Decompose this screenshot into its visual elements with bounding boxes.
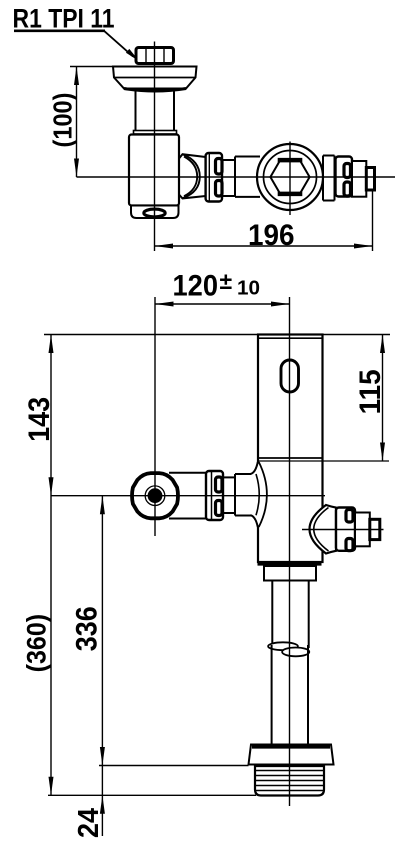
inlet nut slot lower <box>216 501 223 516</box>
svg-text:336: 336 <box>71 606 104 651</box>
dim 196 line <box>155 245 373 247</box>
nut2 slot lower <box>344 182 351 196</box>
nut1 collar line <box>208 154 210 202</box>
extension line thread bottom level <box>48 794 256 796</box>
hexagon thick top bar <box>278 158 303 163</box>
body vertical centerline <box>289 297 291 806</box>
hex nut facet lines <box>145 49 147 63</box>
right fitting cap <box>355 513 370 547</box>
inlet bell flare top <box>251 462 258 474</box>
union nut 1 (top view) <box>206 153 222 202</box>
inlet port center dot <box>148 488 163 503</box>
spreader flange plate <box>249 745 334 765</box>
bell crescent outer <box>183 155 200 199</box>
cap drain ellipse <box>144 209 165 217</box>
svg-text:(100): (100) <box>48 93 78 148</box>
pipe break symbol <box>268 642 298 650</box>
valve head hexagon <box>270 160 309 194</box>
body slot oval <box>281 360 299 392</box>
body top cap line <box>259 337 323 339</box>
svg-text:(360): (360) <box>22 614 52 673</box>
svg-text:24: 24 <box>73 808 105 838</box>
body section line <box>258 457 323 459</box>
inlet bell mouth outer arc <box>259 462 267 527</box>
inlet pipe (front view) <box>169 472 206 474</box>
valve head outer circle <box>257 144 323 210</box>
tailpipe lower <box>271 645 273 745</box>
extension line flange top level <box>99 765 249 767</box>
dim 120 arrow left <box>155 302 174 307</box>
thread lines <box>256 770 324 772</box>
threaded end <box>255 766 324 796</box>
spud washer <box>134 131 177 135</box>
dim 196 arrow left <box>155 244 174 249</box>
inlet extension / port vertical centerline <box>154 297 156 536</box>
port horizontal centerline <box>51 495 325 497</box>
bell crescent inner <box>184 157 197 197</box>
svg-text:115: 115 <box>354 369 387 414</box>
inlet bell white mask <box>256 463 267 526</box>
dim (100) arrow up <box>74 67 79 86</box>
spreader flange dark top <box>252 745 330 749</box>
inlet nut slot upper <box>216 477 223 492</box>
outlet bell (top view) <box>179 154 206 158</box>
right fitting slot upper <box>346 510 353 523</box>
cylinder before valve head <box>234 157 236 198</box>
hexagon thick bottom bar <box>278 192 303 197</box>
svg-text:196: 196 <box>248 219 295 252</box>
valve head vertical crosshair <box>289 142 291 216</box>
extension line body top right <box>323 334 391 336</box>
bottom nut under body <box>264 566 316 581</box>
spud flange bottom rim <box>124 89 186 92</box>
dim 196 arrow right <box>354 244 373 249</box>
dim 336/24 line <box>101 496 103 836</box>
outlet nub (top view) <box>366 168 374 191</box>
dim 120±10 line <box>155 303 290 305</box>
svg-text:120: 120 <box>173 270 219 303</box>
dim 143 arrow up <box>49 335 54 354</box>
leader line <box>104 31 133 57</box>
inlet port hex flange <box>132 473 178 518</box>
right fitting nut <box>336 508 355 551</box>
svg-text:143: 143 <box>23 397 56 442</box>
dim (360) arrow down <box>49 777 54 796</box>
union nut (front view inlet) <box>206 471 223 520</box>
valve body (front view) <box>258 335 323 563</box>
spud neck <box>135 90 137 131</box>
horizontal centerline (top view) <box>77 176 396 178</box>
spud flange mid line <box>114 77 196 79</box>
dim 115 arrow down <box>380 443 385 462</box>
dim 115 arrow up <box>380 335 385 354</box>
nut slot upper <box>216 159 223 175</box>
outlet section after head <box>323 155 335 157</box>
extension line body top left <box>44 334 258 336</box>
outlet cap (top view) <box>352 161 366 197</box>
svg-text:R1 TPI 11: R1 TPI 11 <box>13 4 115 34</box>
right fitting centerline <box>302 529 384 531</box>
dim 336 arrow down <box>100 747 105 766</box>
body bottom thick bar <box>258 561 322 565</box>
inlet bell mouth inner arc <box>256 474 259 515</box>
spud flange <box>113 67 197 89</box>
valve head inner circle <box>264 151 317 204</box>
inlet cylinder <box>234 474 236 516</box>
bottom cap (top view) <box>131 206 179 219</box>
inlet bell flare bottom <box>251 515 258 527</box>
dim 24 arrow up <box>100 795 105 814</box>
dim 336 arrow up <box>100 496 105 515</box>
inlet pipe segment 2 <box>223 476 235 478</box>
right fitting slot lower <box>346 539 353 551</box>
union nut 2 (top view right) <box>336 157 353 197</box>
hex nut (spud top) <box>136 48 174 64</box>
dim 143/(360) line <box>50 335 52 796</box>
leader arrowhead <box>126 49 140 62</box>
leader underline <box>14 29 105 32</box>
right fitting dome inner arc <box>314 508 329 552</box>
dim 115 line <box>382 335 384 462</box>
svg-text:±: ± <box>220 268 233 294</box>
dim (100) arrow down <box>74 159 79 178</box>
dim (100) line <box>76 67 78 178</box>
nut slot lower <box>216 181 223 197</box>
dim 196 right extension <box>372 190 374 251</box>
dim (100) extension line top <box>70 66 113 68</box>
nut2 slot upper <box>344 164 351 178</box>
inlet port boss ring <box>145 486 165 506</box>
body section extension (115 bottom) <box>258 460 389 462</box>
right fitting dome (front view) <box>310 505 337 554</box>
valve body (top view) <box>129 135 179 206</box>
spud vertical centerline <box>154 42 156 252</box>
svg-text:10: 10 <box>237 278 260 300</box>
right fitting nub <box>370 519 380 539</box>
tailpipe upper <box>271 581 273 649</box>
pipe segment 2 (top view) <box>222 159 235 161</box>
dim 143 arrow down <box>49 477 54 496</box>
inlet nut collar line <box>211 472 213 520</box>
dim 120 arrow right <box>271 302 290 307</box>
